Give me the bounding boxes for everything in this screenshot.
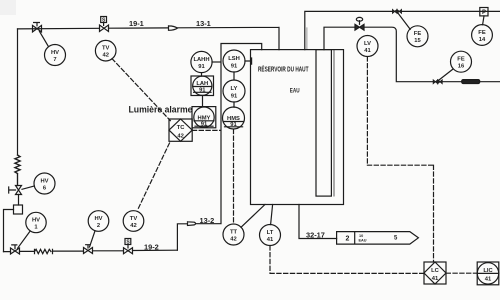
svg-text:LT: LT [267,230,274,236]
svg-text:10: 10 [359,234,363,238]
instrument bubble FE15 [407,26,428,47]
level gauge double line [333,50,335,197]
svg-text:7: 7 [53,57,56,63]
valve HV1 handle [12,245,17,249]
wire ghost line tank inlet [306,28,308,50]
svg-text:HV: HV [94,216,102,222]
valve HV2 [84,248,93,254]
svg-text:Lumière alarme: Lumière alarme [129,104,193,114]
svg-text:91: 91 [199,88,206,94]
svg-text:HV: HV [32,217,40,223]
wire bottom pipe [4,250,178,251]
svg-text:LAHH: LAHH [193,57,209,63]
wire valve to HV7 bubble [40,31,49,46]
pennant line tag 32-17 [337,232,419,245]
instrument bubble TV42 (top) [95,40,116,61]
signal HMS to TT42 [233,129,235,224]
svg-text:41: 41 [432,276,439,282]
svg-text:LIC: LIC [483,268,493,274]
nozzle LSH [245,58,252,64]
solenoid box S (top) [101,17,107,23]
wire tank bottom outlet [299,205,337,239]
instrument bubble TT42 [223,224,244,245]
wire tank to TT bubble [241,205,265,228]
wire valve to HV6 bubble [22,186,34,189]
solenoid box S (bottom) [125,239,131,245]
svg-text:HV: HV [40,178,48,184]
instrument box HMY91 [192,107,216,128]
wire 19-2 corner up to 13-2 line [177,224,187,250]
wire valve to FE15 bubble [398,13,411,30]
svg-text:19-2: 19-2 [144,242,159,251]
solenoid valve S 19-2 [124,248,133,254]
svg-text:19-1: 19-1 [129,19,144,28]
instrument bubble FE16 [451,51,472,72]
instrument bubble TV42 (bottom) [123,211,144,232]
wire drain box to bottom pipe [4,210,14,252]
flow element (hatched) [462,80,480,84]
svg-text:2: 2 [97,223,100,229]
signal TC42 to TV42 bottom [137,143,169,211]
spring / flex element [15,155,20,186]
valve HV6 (vertical) [16,186,22,195]
control valve LV [355,24,364,30]
check valve FE16 line [433,80,442,84]
svg-text:14: 14 [479,37,486,43]
wire valve to HV2 bubble [90,231,96,247]
svg-text:FE: FE [478,30,486,36]
svg-text:LV: LV [364,41,371,47]
wire LAHH to riser [212,61,221,63]
svg-text:91: 91 [230,122,237,128]
svg-text:EAU: EAU [290,87,300,94]
LV valve actuator [359,21,361,25]
instrument bubble HMS91 [223,107,245,129]
signal LC41 to LIC41 [446,272,477,274]
TC42 diamond [169,119,192,141]
svg-text:13-1: 13-1 [196,19,211,28]
svg-text:42: 42 [177,134,183,140]
wire left vertical drop [17,29,19,155]
svg-text:1: 1 [34,224,38,230]
wire LY-HMS [233,102,235,107]
svg-text:91: 91 [231,64,238,70]
reservoir tank [251,50,344,205]
instrument box LAH91 [191,76,214,96]
valve HV7 [33,25,42,32]
TC42 square [169,119,192,141]
svg-text:42: 42 [130,223,136,229]
wire LSH-LY [233,72,235,80]
check valve FE15 line [393,10,402,14]
svg-text:91: 91 [201,122,208,128]
level gauge inner rect [316,50,331,197]
svg-text:41: 41 [485,276,492,282]
valve HV1 [11,248,20,254]
svg-text:TT: TT [230,229,238,235]
solenoid valve S 19-1 [100,25,109,32]
svg-text:91: 91 [198,64,205,70]
wire LAHH-LAH [201,73,203,76]
LIC41 square [477,262,499,285]
svg-text:TC: TC [177,125,186,131]
HMS chord lines [223,122,244,127]
pipe continuation symbol 19-1 [169,26,178,30]
instrument bubble HV2 [88,211,109,232]
heater coil element [35,249,53,253]
svg-text:5: 5 [394,236,398,242]
wire to flow element [442,81,462,83]
wire LAH-HMY [202,96,204,107]
instrument bubble LT41 [260,225,281,246]
svg-text:HV: HV [51,50,59,56]
svg-text:FE: FE [414,31,422,37]
svg-text:LC: LC [431,268,440,274]
LIC chord line [477,272,499,274]
svg-text:41: 41 [364,48,371,54]
instrument bubble LSH91 [223,50,245,72]
wire valve to FE16 bubble [439,69,453,80]
svg-text:TV: TV [130,216,138,222]
svg-text:FE: FE [457,57,465,63]
wire LV valve to down corner [364,27,433,81]
signal TC42 to riser [192,129,220,131]
svg-text:TV: TV [102,46,110,52]
LAH chord lines [193,87,212,93]
valve HV6 handle [9,187,16,193]
svg-text:P: P [482,10,486,16]
svg-text:16: 16 [458,64,465,70]
svg-text:15: 15 [414,38,421,44]
pipe continuation symbol 13-2 [188,222,196,226]
svg-text:42: 42 [102,53,108,59]
svg-text:EAU: EAU [359,239,367,243]
instrument bubble HV1 [26,212,46,232]
valve HV7 handle [34,23,40,26]
instrument bubble HV6 [34,173,55,194]
paper tint top-left [0,0,16,15]
svg-text:LSH: LSH [228,56,240,62]
instrument bubble LV41 [357,36,378,57]
instrument bubble LY91 [223,80,245,102]
wire LV line into tank [324,27,355,49]
HMY chord lines [194,121,214,126]
instrument bubble FE14 [472,25,493,46]
svg-text:HMS: HMS [227,116,240,122]
svg-text:42: 42 [230,236,236,242]
instrument air/signal dashed lines [112,57,477,274]
svg-text:2: 2 [346,236,350,243]
wire valve to drain box [18,195,20,206]
wire tank to LT bubble [271,205,273,225]
svg-text:32-17: 32-17 [306,230,325,239]
signal TV42 top to TC42 [112,59,170,121]
wire 19-1 to corner [177,27,279,49]
svg-text:41: 41 [267,237,274,243]
wire top-left pipe 19-1 [18,28,169,29]
wire flow element to edge [480,81,500,83]
svg-text:LY: LY [231,86,238,92]
signal LV41 to LC41 [367,57,433,262]
svg-text:RÉSERVOIR DU HAUT: RÉSERVOIR DU HAUT [258,65,309,74]
signal LT41 to LC41 [270,246,424,274]
wire valve to HV1 bubble [18,231,31,248]
wire 13-2 to riser [197,44,262,224]
instrument bubble LAHH91 [191,51,212,72]
LC41 diamond [424,262,446,284]
svg-text:13-2: 13-2 [200,216,215,225]
wire P box to FE14 bubble [483,16,484,25]
drain box [14,205,23,214]
svg-text:91: 91 [231,94,238,100]
instrument bubble HV7 [45,45,66,66]
svg-text:LAH: LAH [196,81,208,87]
wire top-right pipe into tank [305,11,500,49]
P box [480,8,488,16]
LC41 square [424,262,446,284]
svg-text:6: 6 [43,185,47,191]
valve HV2 handle [86,245,91,248]
